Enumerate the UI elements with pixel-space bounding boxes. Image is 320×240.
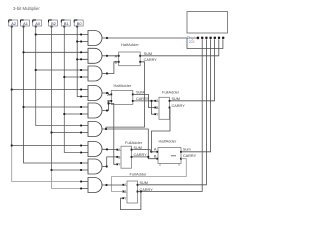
full adder U5 FullAdder <box>116 140 147 168</box>
wire G3 output to U1 B <box>102 62 119 74</box>
svg-text:3-bit Multiplier: 3-bit Multiplier <box>13 6 40 11</box>
wire U6 CARRY bit5 to display pin2 <box>138 39 203 191</box>
AND gate G1 <box>80 31 102 46</box>
wire U6 SUM bit4 to display pin3 <box>138 39 207 185</box>
wire U3 SUM bit3 to display pin4 <box>181 39 211 152</box>
svg-text:B0: B0 <box>77 21 83 26</box>
wire gate input feed lines <box>12 35 81 171</box>
full adder U4 FullAdder <box>154 90 185 120</box>
wire G6 output to U5 CARRY line junction <box>102 129 148 157</box>
node G5 branch <box>107 102 109 104</box>
svg-text:CARRY: CARRY <box>144 58 158 62</box>
wire G7 output to U5 A <box>102 148 117 150</box>
wire A1 column <box>24 26 82 163</box>
input pin B0 <box>74 20 83 28</box>
svg-text:CARRY: CARRY <box>183 154 197 158</box>
AND gate G6 <box>80 122 102 137</box>
node G5 out <box>106 109 108 111</box>
node G3 out <box>106 72 108 74</box>
wire U2 CARRY to U4 A <box>133 100 155 102</box>
wire G5 branch to U5 Y <box>109 104 118 165</box>
node U6 CARRY branch <box>140 190 142 192</box>
input pin B2 <box>49 20 58 28</box>
svg-text:HalfAdder: HalfAdder <box>159 139 177 144</box>
svg-text:FullAdder: FullAdder <box>130 172 148 177</box>
wire U2 SUM to U4 B <box>133 94 155 107</box>
wire G1 output bit0 to display pin7 <box>102 38 223 49</box>
AND gate G7 <box>80 142 102 157</box>
node G2 out <box>106 55 108 57</box>
svg-text:HalfAdder: HalfAdder <box>121 42 139 47</box>
node G9 out <box>105 184 107 186</box>
svg-text:202: 202 <box>189 40 195 44</box>
wire U4 CARRY down to U3 A line <box>152 108 171 152</box>
AND gate G4 <box>80 86 102 101</box>
half adder U3 HalfAdder <box>154 139 197 167</box>
svg-text:SUM: SUM <box>134 146 142 150</box>
svg-text:B: B <box>115 60 118 64</box>
node U5 CARRY line junction <box>147 156 149 158</box>
wire U6 CARRY feedback loop to U6 Y <box>121 192 141 210</box>
AND gate G3 <box>80 66 102 81</box>
wire U1 CARRY down and left to G6 output node <box>106 62 145 129</box>
AND gate G8 <box>80 159 102 174</box>
wire U5 CARRY to U3 B <box>132 157 158 159</box>
input pin B1 <box>61 20 70 28</box>
input pin A0 <box>33 20 42 28</box>
svg-text:FullAdder: FullAdder <box>162 90 180 95</box>
svg-text:FullAdder: FullAdder <box>125 140 143 145</box>
AND gate G2 <box>80 48 102 63</box>
svg-text:HalfAdder: HalfAdder <box>114 83 132 88</box>
node G8 out <box>106 165 108 167</box>
display box U7 <box>187 12 228 45</box>
node input bus junction dots <box>11 33 79 171</box>
svg-text:CARRY: CARRY <box>172 104 186 108</box>
svg-text:A0: A0 <box>35 21 41 26</box>
wire U4 Y feeder branch from U2 CARRY line <box>152 101 156 114</box>
input pin A1 <box>21 20 30 28</box>
wire A2 column <box>11 26 13 146</box>
svg-text:A2: A2 <box>11 21 16 26</box>
wire G2 output to U1 A <box>102 55 119 57</box>
wire U4 SUM bit2 to display pin5 <box>170 39 215 101</box>
node U4 A line branch <box>150 100 152 102</box>
node G6 out <box>105 128 107 130</box>
full adder U6 FullAdder <box>122 172 153 204</box>
wire U3 CARRY channel to U6 B <box>112 159 187 192</box>
display pin squares <box>197 37 224 39</box>
svg-text:Sum: Sum <box>183 147 191 151</box>
wire B1 column <box>64 26 81 153</box>
node G7 out <box>106 148 108 150</box>
half adder U2 HalfAdder <box>107 83 149 104</box>
wire U1 SUM bit1 to display pin6 <box>140 39 219 56</box>
svg-text:A: A <box>115 54 118 58</box>
wire G5 output to U2 B <box>102 101 111 111</box>
input pin A2 <box>9 20 18 28</box>
node G4 out <box>106 92 108 94</box>
wire G4 output to U2 A <box>102 93 111 94</box>
half adder U1 HalfAdder <box>115 42 158 66</box>
node G1 out <box>106 37 108 39</box>
wire U5 SUM to U3 A <box>132 150 158 152</box>
AND gate G9 <box>80 178 102 193</box>
AND gate G5 <box>80 103 102 118</box>
wire B2 column <box>51 26 53 170</box>
wire G8 output up to U5 B <box>102 157 117 167</box>
wire A0 column <box>36 26 81 126</box>
svg-text:B1: B1 <box>64 21 69 26</box>
wire B0 column <box>77 26 81 97</box>
svg-text:A1: A1 <box>23 21 28 26</box>
svg-text:B2: B2 <box>51 21 56 26</box>
wire G9 output to U6 A <box>102 184 123 186</box>
node U3 A line junction <box>150 151 152 153</box>
